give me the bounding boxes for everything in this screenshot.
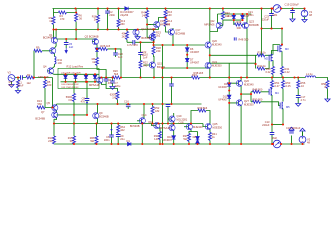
arrow below C5 (65, 48, 67, 53)
wire q25 leads (206, 111, 210, 145)
junction dots V+ top rail (74, 7, 76, 9)
svg-text:220: 220 (48, 139, 53, 143)
svg-text:220n: 220n (109, 13, 115, 17)
resistor R3 (52, 17, 55, 25)
resistor R46 (235, 23, 243, 26)
wire y44.5 bias top (154, 44, 206, 46)
wire d6 d7 chain (186, 45, 188, 68)
wire R24 chain (126, 30, 128, 43)
wire C16 stub (127, 104, 129, 109)
svg-text:Q19: Q19 (177, 114, 182, 118)
svg-text:D60 LM4040 D62: D60 LM4040 D62 (62, 84, 80, 86)
transistor Q22 (216, 22, 222, 28)
resistor R51 (271, 81, 274, 89)
wire C10-R22 comp chain (140, 42, 142, 77)
resistor R14b (53, 136, 56, 144)
svg-text:Q20: Q20 (212, 39, 217, 43)
resistor R58 load (326, 81, 329, 89)
resistor R64 (117, 125, 120, 133)
transistor Q10 (133, 29, 139, 35)
wire gate ladder R36 row (265, 51, 278, 56)
capacitor C17 (296, 96, 301, 98)
svg-text:100: 100 (47, 83, 52, 87)
svg-text:Q24: Q24 (212, 60, 217, 64)
wire x118 R13 leg (118, 9, 120, 30)
svg-text:R12 Load Res: R12 Load Res (67, 64, 84, 68)
svg-text:22p/63: 22p/63 (120, 13, 128, 17)
wire x281.5 upper-fet drain leg (281, 29, 283, 46)
wire y13.5 bias top (218, 13, 252, 15)
wire x228.7 vertical (228, 63, 230, 144)
diode D12 (241, 15, 245, 18)
wire Q7 leads (54, 115, 87, 124)
resistor R66b (159, 132, 162, 140)
wire R10b leg (117, 100, 119, 105)
svg-text:BC546B: BC546B (99, 115, 109, 119)
resistor R56 (297, 81, 300, 89)
ground up above C18 (289, 127, 294, 130)
wire q14 legs (142, 104, 144, 144)
svg-text:BC546B: BC546B (130, 124, 140, 128)
wire q25 base stub (203, 124, 207, 127)
wire Q4 base stub (47, 70, 50, 72)
svg-text:UF4007: UF4007 (163, 138, 173, 142)
svg-text:R48 300: R48 300 (239, 38, 249, 42)
source V3 (8, 75, 15, 82)
source V2 (299, 136, 306, 143)
wire x209.3 VAS vertical (209, 9, 211, 78)
wire R64 C9 legs (117, 124, 119, 145)
svg-text:MPSA18: MPSA18 (38, 75, 49, 79)
wire C18 stub (291, 136, 293, 145)
transistor Q3 (92, 39, 98, 45)
svg-text:D1: D1 (127, 139, 131, 143)
wire R46 stubs (234, 20, 245, 25)
svg-text:MJE350: MJE350 (244, 103, 254, 107)
wire bottom rail (54, 143, 273, 145)
wire C6 leg (111, 124, 113, 145)
svg-text:Q7: Q7 (41, 110, 45, 114)
wire R53 under rail (282, 78, 284, 102)
resistor R41v (281, 67, 284, 75)
svg-text:220u: 220u (115, 84, 121, 88)
transistor Q4 (47, 68, 53, 74)
wire V1 stub (304, 9, 306, 11)
wire bus y29 collector (54, 29, 159, 31)
transistor Q19 (169, 116, 175, 122)
ammeter AM1 (273, 5, 281, 13)
wire load R58 to gnd (327, 89, 329, 100)
svg-text:Q23: Q23 (249, 20, 254, 24)
svg-text:0.25: 0.25 (286, 84, 292, 88)
svg-text:Q25: Q25 (213, 122, 218, 126)
ground up above V2 (300, 128, 305, 131)
wire Q13 leads (159, 18, 166, 30)
capacitor C2 (105, 11, 110, 13)
wire y42 (127, 41, 154, 43)
resistor R10b (116, 92, 119, 100)
resistor R24 (126, 32, 129, 40)
transistor Q18 (186, 124, 192, 130)
resistor R53 (282, 81, 285, 89)
wire diode stubs in box (66, 74, 96, 82)
diode DB1 (64, 75, 68, 78)
resistor R66 (95, 136, 98, 144)
wire y62.7 lower bias (210, 62, 256, 64)
wire Q12 leads (153, 40, 155, 43)
ground below R1 (15, 91, 20, 94)
resistor R13 feedback (37, 106, 45, 109)
wire q18 base stub (184, 126, 188, 128)
svg-text:140: 140 (142, 14, 147, 18)
wire box top bus (58, 73, 97, 75)
svg-text:100n: 100n (104, 138, 110, 142)
wire Q10 legs (137, 30, 139, 37)
resistor R15 (73, 136, 76, 144)
wire y19.6 bias bottom (223, 19, 243, 21)
wire Q3 bracket to rail (97, 66, 106, 78)
wire y67.5 bias bottom (163, 66, 208, 69)
svg-text:D8: D8 (193, 135, 197, 139)
svg-text:Q17: Q17 (176, 28, 181, 32)
wire bus y38.5 (56, 38, 97, 40)
resistor R14 (164, 19, 167, 27)
resistor R33 inline (192, 76, 200, 79)
transistor Q9 (93, 113, 99, 119)
resistor R22 (139, 61, 142, 69)
capacitor C7 (110, 81, 115, 83)
svg-text:300: 300 (237, 26, 242, 30)
diode D5 (95, 48, 99, 51)
ground below Q10 (135, 37, 140, 40)
wire R18 leg (97, 9, 99, 30)
svg-text:V3: V3 (8, 71, 12, 75)
diode D16 (172, 136, 176, 139)
junction dots input node row (17, 76, 19, 78)
wire Q11 leads (144, 65, 155, 78)
svg-text:MJE350: MJE350 (212, 64, 222, 68)
wire y124 joiner (272, 124, 283, 126)
junction dots V- bottom rail (73, 143, 75, 145)
svg-text:UF4007: UF4007 (190, 50, 200, 54)
svg-text:L1 2u: L1 2u (306, 72, 313, 76)
resistor R2 (26, 76, 34, 79)
svg-text:1k2: 1k2 (27, 81, 32, 85)
svg-text:220uF: 220uF (262, 18, 270, 22)
wire M1 leads (281, 51, 283, 66)
svg-text:R46: R46 (237, 20, 242, 24)
svg-text:R38 2k5: R38 2k5 (194, 71, 204, 75)
transistor Q1 (51, 37, 57, 43)
diode D4 on rail (125, 7, 128, 11)
wire input to Q5 base (45, 78, 54, 108)
wire tail y103.5 (57, 103, 202, 105)
wire Q5 leads (56, 104, 58, 113)
capacitor C5 (64, 43, 69, 45)
wire V+ top rail (53, 8, 274, 10)
wire R9 to base (42, 50, 52, 52)
wire x53.5 lower (53, 124, 55, 145)
wire C13 leg to bottom rail (271, 125, 273, 145)
svg-text:R50 300: R50 300 (253, 97, 263, 101)
wire R50 legs (153, 30, 155, 43)
resistor R13b (117, 19, 120, 27)
svg-text:0.22: 0.22 (265, 70, 271, 74)
resistor R52b (151, 107, 154, 115)
wire R5 leg (44, 78, 46, 108)
capacitor C8 (85, 99, 90, 101)
svg-text:22u: 22u (120, 137, 125, 141)
wire C20 tap (115, 49, 117, 57)
svg-text:182: 182 (155, 109, 160, 113)
svg-text:1k4: 1k4 (225, 14, 230, 18)
wire Q4 into box (52, 73, 58, 76)
wire x75 vertical (75, 9, 77, 40)
wire Q1 collector (55, 30, 57, 38)
mosfet M2 (269, 54, 273, 62)
wire q19 leads (168, 113, 174, 144)
svg-text:1uF: 1uF (69, 45, 74, 49)
wire x107 C2 leg (107, 9, 109, 30)
diode D10 (227, 95, 231, 98)
wire R1 leg (17, 78, 19, 91)
wire base feeds drivers (229, 83, 238, 103)
wire C7 stub (112, 78, 114, 87)
wire gate ladder R42 row (256, 55, 270, 68)
wire x261 right vertical top (261, 9, 263, 29)
capacitor C11 (166, 105, 171, 107)
diode D11 (232, 15, 236, 18)
svg-text:AM1: AM1 (272, 13, 278, 17)
svg-text:Q26: Q26 (244, 79, 249, 83)
ground below V3 (9, 85, 14, 88)
svg-text:640: 640 (143, 64, 148, 68)
wire source gnd stub (11, 81, 13, 85)
diode DB3 (84, 75, 88, 78)
svg-text:Q27: Q27 (244, 99, 249, 103)
svg-text:M3: M3 (285, 47, 289, 51)
wire R40 R41 to output rail (273, 75, 282, 78)
wire C23 stubs (271, 9, 273, 29)
wire x73.5 R15 (73, 115, 75, 136)
wire x162 long vertical (162, 45, 164, 144)
svg-text:100n: 100n (248, 13, 254, 17)
svg-text:Q4: Q4 (43, 65, 47, 69)
ground below C19 (290, 19, 295, 22)
resistor R28 (152, 47, 155, 55)
svg-text:Q18: Q18 (179, 121, 184, 125)
wire q18 leads (189, 111, 198, 145)
transistor Q26 (236, 80, 242, 86)
svg-text:MPSA18: MPSA18 (160, 126, 171, 130)
diode D9 (227, 83, 231, 86)
svg-text:2k2: 2k2 (156, 34, 161, 38)
transistor Q12 (149, 34, 155, 40)
svg-text:UF4007: UF4007 (190, 61, 200, 65)
resistor R40a (221, 12, 224, 20)
wire C8b stub (105, 78, 107, 85)
transistor Q14 (139, 118, 145, 124)
wire fb node x33 (33, 51, 35, 78)
resistor R23 (152, 32, 155, 40)
capacitor C12 (169, 84, 174, 86)
transistor Q2 lower (50, 48, 56, 54)
transistor Q19b (169, 125, 175, 131)
wire box bottom bus (61, 81, 97, 83)
svg-text:442: 442 (120, 128, 125, 132)
wire x261 to gate ladder (261, 29, 263, 56)
capacitor C6 (109, 135, 114, 137)
svg-text:UF4007: UF4007 (218, 98, 228, 102)
wire C19 gnd stub (292, 9, 294, 19)
diode DB2 (74, 75, 78, 78)
wire Q13 base (147, 24, 156, 26)
mirror box outline (58, 68, 99, 88)
ground below C7 (110, 87, 115, 90)
transistor Q13 (154, 21, 160, 27)
transistor Q16 (154, 122, 160, 128)
resistor R1 (17, 80, 20, 88)
resistor R41b (209, 133, 212, 141)
resistor R42 (257, 67, 265, 70)
svg-text:140: 140 (167, 13, 172, 17)
svg-text:MPSA06: MPSA06 (204, 23, 215, 27)
wire C11 leg (167, 104, 169, 124)
capacitor C23 (269, 14, 274, 16)
wire Q1-Q2 emitter chain (52, 43, 56, 68)
diode D1 on bottom rail (128, 142, 131, 146)
transistor Q23 (242, 22, 248, 28)
transistor Q17 (168, 29, 174, 35)
junction dots bus y123 (53, 122, 55, 124)
transistor Q7 (52, 112, 58, 118)
diode D8 zener pair (196, 137, 200, 140)
wire L1 to load (316, 78, 328, 81)
svg-text:BC546B: BC546B (141, 36, 151, 40)
capacitor C10 (138, 53, 143, 55)
capacitor C21b inline (133, 40, 135, 45)
transistor Q11 (149, 62, 155, 68)
svg-text:BC546B: BC546B (176, 32, 186, 36)
wire bottom rail right (281, 143, 305, 145)
resistor R5 input (44, 80, 47, 88)
svg-text:Q3 BC546B: Q3 BC546B (85, 34, 99, 38)
resistor R39 (198, 109, 206, 112)
svg-text:BC546B: BC546B (249, 23, 259, 27)
mosfet M5 (280, 102, 283, 110)
svg-text:240: 240 (156, 49, 161, 53)
wire R4 branch y12 (54, 12, 77, 14)
wire driver Q26 leads (240, 78, 242, 101)
capacitor C20 (113, 53, 118, 55)
svg-text:BD139: BD139 (157, 65, 165, 69)
svg-text:BC546B: BC546B (35, 117, 45, 121)
wire R52 leg (152, 104, 154, 124)
svg-text:R48 300: R48 300 (253, 87, 263, 91)
svg-text:MPSA18: MPSA18 (89, 83, 100, 87)
wire driver Q27 leads (241, 94, 251, 144)
ground below C17 (296, 104, 301, 107)
resistor R8 (96, 58, 99, 66)
source V1 (301, 10, 308, 17)
resistor R9 (34, 49, 42, 52)
wire y123 bus (54, 123, 203, 125)
wire left vertical x53 top (53, 9, 55, 38)
svg-text:Q5: Q5 (47, 101, 51, 105)
wire x96 Q9 chain (97, 104, 98, 136)
wire Q23 leads (246, 14, 248, 78)
wire Q3 emitter chain R8 (96, 44, 98, 57)
svg-text:R36 1k: R36 1k (258, 51, 267, 55)
wire Q22 leads (210, 14, 218, 32)
wire x222.4 from rail (220, 9, 223, 26)
wire top rail right of ammeter (281, 8, 305, 10)
wire y54.8 from VAS to ladder (210, 54, 257, 56)
svg-text:47u: 47u (81, 100, 86, 104)
mosfet M4 (269, 88, 272, 96)
svg-text:470: 470 (60, 17, 65, 21)
svg-text:M5: M5 (286, 105, 290, 109)
svg-text:M4: M4 (275, 91, 279, 95)
transistor Q6 (97, 77, 103, 83)
svg-text:Q13: Q13 (160, 19, 165, 23)
svg-text:MJE340: MJE340 (193, 125, 203, 129)
svg-text:220uF: 220uF (262, 123, 270, 127)
transistor Q20 (205, 42, 211, 48)
wire vas feed R26h (97, 49, 121, 78)
junction dots diode box buses (64, 73, 66, 75)
resistor R18 (97, 15, 100, 23)
wire neg source V2 stub (302, 132, 304, 145)
svg-text:M2: M2 (264, 57, 268, 61)
wire box bottom edge taps (74, 82, 87, 115)
wire Q6 leads (102, 78, 118, 92)
wire input from source (15, 77, 53, 79)
svg-text:2k2: 2k2 (122, 35, 127, 39)
svg-text:C19 2200uF: C19 2200uF (285, 3, 300, 7)
resistor R16 (164, 10, 167, 18)
wire output rail (99, 77, 306, 79)
wire box out right (97, 74, 99, 82)
resistor R8A (73, 94, 76, 102)
svg-text:1uF: 1uF (118, 55, 123, 59)
capacitor C9 (116, 135, 121, 137)
capacitor C18 (289, 131, 294, 133)
wire V1 stub2 (304, 17, 306, 20)
ground below R58 (325, 99, 330, 102)
resistor R48 (253, 90, 261, 93)
resistor R6 (75, 14, 78, 22)
wire C12 leg (171, 78, 173, 105)
diode D6 (185, 48, 189, 51)
svg-text:MJE350: MJE350 (213, 126, 223, 130)
svg-text:Q16: Q16 (148, 120, 153, 124)
svg-text:100: 100 (58, 61, 63, 65)
svg-text:4.7k NP0: 4.7k NP0 (127, 43, 138, 47)
polarity arrow C6 (110, 129, 112, 131)
svg-text:360: 360 (120, 22, 125, 26)
transistor Q25 (205, 123, 211, 129)
svg-text:5k1: 5k1 (183, 137, 188, 141)
svg-text:BC546B: BC546B (43, 36, 53, 40)
svg-text:5k6: 5k6 (114, 72, 119, 76)
svg-text:D61 1N4148 D63: D61 1N4148 D63 (62, 87, 80, 89)
svg-text:UF4007: UF4007 (218, 85, 228, 89)
svg-text:R2: R2 (27, 73, 31, 77)
svg-text:Q22: Q22 (210, 19, 215, 23)
inductor L1 (306, 76, 316, 78)
wire Q17 leads (172, 28, 174, 45)
